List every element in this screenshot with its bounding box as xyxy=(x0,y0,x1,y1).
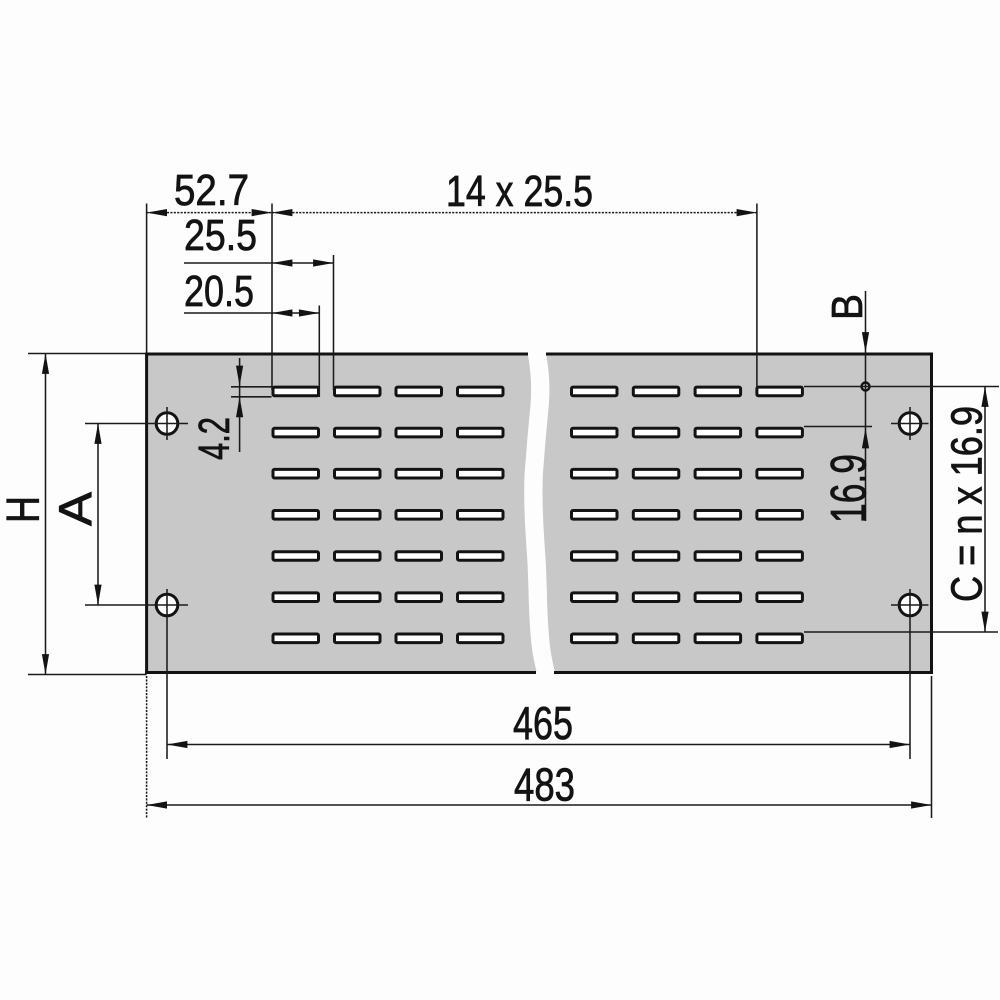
dimension 465 line xyxy=(167,741,910,748)
panel top edge left segment xyxy=(145,353,528,356)
svg-text:52.7: 52.7 xyxy=(174,166,249,215)
extension line right hole down xyxy=(909,589,911,759)
extension line slot col8 left up xyxy=(756,204,758,391)
extension line panel left edge down xyxy=(146,676,148,818)
svg-text:A: A xyxy=(50,492,102,526)
extension line slot col2 left up xyxy=(333,255,335,390)
extension line H bottom xyxy=(28,674,147,676)
vent slot row 1 xyxy=(273,387,802,396)
vent slot row 2 xyxy=(273,428,802,437)
panel left half gray body xyxy=(148,356,537,672)
dimension 4.2 extension bottom xyxy=(231,396,272,398)
extension line slot row7 right xyxy=(804,631,998,633)
extension line slot row1 right xyxy=(804,386,999,388)
extension line A bottom (through hole) xyxy=(85,604,188,606)
extension line panel right edge down xyxy=(931,676,933,818)
svg-text:4.2: 4.2 xyxy=(190,417,239,460)
svg-text:H: H xyxy=(0,496,49,523)
dimension 14 x 25.5 line xyxy=(272,209,757,216)
dimension H line xyxy=(42,354,49,675)
dimension A line xyxy=(94,424,101,606)
dimension B line xyxy=(862,291,869,521)
extension line panel left edge up xyxy=(146,204,148,353)
vent slot row 3 xyxy=(273,469,802,478)
node B reference point xyxy=(862,383,870,391)
extension line slot row2 right xyxy=(804,426,872,428)
svg-text:16.9: 16.9 xyxy=(821,454,877,523)
svg-text:465: 465 xyxy=(513,697,573,749)
svg-text:25.5: 25.5 xyxy=(184,211,257,260)
panel top edge right segment xyxy=(546,353,933,356)
svg-text:B: B xyxy=(823,294,872,320)
extension line H top xyxy=(28,353,147,355)
dimension 25.5 line xyxy=(184,259,334,266)
panel bottom edge right segment xyxy=(554,671,933,674)
panel right half gray body xyxy=(543,356,930,672)
svg-text:483: 483 xyxy=(514,759,575,811)
dimension 20.5 line xyxy=(184,309,319,316)
extension line slot col1 right up xyxy=(318,306,320,398)
extension line left hole down xyxy=(166,589,168,759)
svg-text:20.5: 20.5 xyxy=(184,267,254,316)
dimension 4.2 line xyxy=(236,358,243,452)
dimension 483 line xyxy=(147,801,932,808)
panel left edge xyxy=(145,353,148,675)
panel right edge xyxy=(930,353,933,675)
vent slot row 7 xyxy=(273,634,802,643)
vent slot row 4 xyxy=(273,511,802,520)
dimension 4.2 extension top xyxy=(231,386,272,388)
panel bottom edge left segment xyxy=(145,671,536,674)
extension line A top (through hole) xyxy=(85,423,188,425)
vent slot row 5 xyxy=(273,552,802,561)
mounting hole bottom-left xyxy=(156,594,178,616)
mounting hole top-right xyxy=(891,407,929,440)
extension line slot col1 left up xyxy=(271,204,273,391)
mounting hole bottom-right xyxy=(891,594,929,616)
dimension C line xyxy=(981,387,988,633)
svg-text:14 x 25.5: 14 x 25.5 xyxy=(446,167,593,216)
svg-text:C = n x 16.9: C = n x 16.9 xyxy=(943,406,992,602)
dimension 52.7 line xyxy=(147,209,272,216)
mounting hole top-left xyxy=(156,407,178,440)
vent slot row 6 xyxy=(273,593,802,602)
